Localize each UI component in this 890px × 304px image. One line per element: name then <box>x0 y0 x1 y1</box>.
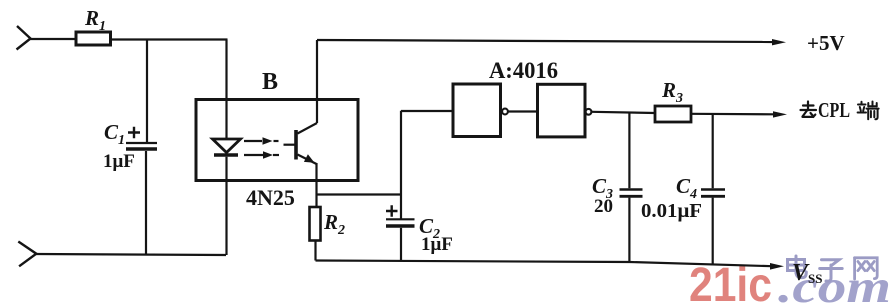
svg-text:R2: R2 <box>323 210 345 238</box>
svg-text:SS: SS <box>808 271 822 286</box>
svg-text:0.01μF: 0.01μF <box>641 200 702 222</box>
svg-text:C1: C1 <box>104 120 125 148</box>
svg-text:R3: R3 <box>661 78 683 106</box>
svg-text:C4: C4 <box>676 174 697 202</box>
svg-text:4N25: 4N25 <box>246 185 295 210</box>
svg-text:1μF: 1μF <box>421 234 453 255</box>
svg-text:B: B <box>262 69 278 95</box>
svg-text:A:4016: A:4016 <box>489 58 558 83</box>
svg-text:1μF: 1μF <box>103 151 135 172</box>
svg-text:20: 20 <box>594 196 613 217</box>
svg-text:R1: R1 <box>84 6 106 34</box>
svg-text:CPL: CPL <box>818 98 850 122</box>
svg-text:+5V: +5V <box>807 31 845 55</box>
